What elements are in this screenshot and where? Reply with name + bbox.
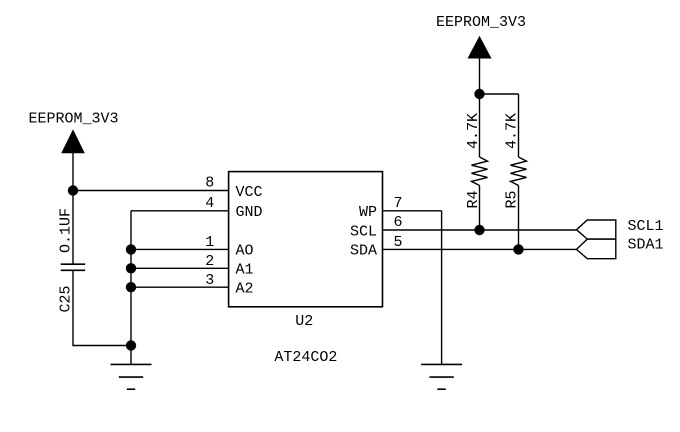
svg-text:4.7K: 4.7K (465, 113, 482, 149)
wire power stem (right) (479, 58, 481, 94)
svg-text:4: 4 (205, 195, 214, 212)
capacitor C25 bottom plate (61, 269, 85, 271)
junction dot pin 1 (126, 244, 136, 254)
wire pin 4 GND (131, 210, 229, 212)
svg-text:O.1UF: O.1UF (57, 208, 74, 253)
power symbol arrow (right) (468, 37, 490, 58)
port SDA1 (577, 239, 616, 259)
junction dot R4 to SCL (474, 225, 484, 235)
resistor R5 (511, 94, 527, 249)
svg-text:AT24CO2: AT24CO2 (274, 349, 337, 366)
svg-text:3: 3 (205, 272, 214, 289)
wire pin 6 SCL net (383, 229, 577, 231)
wire pin 8 VCC (73, 190, 229, 192)
junction dot capacitor to ground bus (126, 340, 136, 350)
wire pin 5 SDA net (383, 248, 577, 250)
wire pin 7 WP (383, 210, 442, 212)
svg-text:EEPROM_3V3: EEPROM_3V3 (436, 14, 526, 31)
wire pin 2 A1 (131, 267, 229, 269)
svg-text:5: 5 (394, 234, 403, 251)
svg-text:4.7K: 4.7K (504, 113, 521, 149)
svg-text:WP: WP (359, 204, 377, 221)
wire GND bus vertical (130, 211, 132, 365)
junction dot pin 2 (126, 263, 136, 273)
svg-text:1: 1 (205, 234, 214, 251)
svg-text:R4: R4 (465, 190, 482, 208)
capacitor C25 top plate (61, 263, 85, 265)
svg-text:6: 6 (394, 214, 403, 231)
svg-text:SDA1: SDA1 (628, 236, 664, 253)
svg-text:A1: A1 (236, 262, 254, 279)
junction dot pin 3 (126, 282, 136, 292)
svg-text:EEPROM_3V3: EEPROM_3V3 (29, 110, 119, 127)
wire pin 1 AO (131, 248, 229, 250)
junction dot pull-up rail (474, 89, 484, 99)
wire power stem (left) (72, 153, 74, 191)
svg-text:GND: GND (236, 204, 263, 221)
wire capacitor top lead (72, 191, 74, 265)
power symbol arrow (left) (62, 131, 84, 153)
ground symbol (left) (111, 364, 152, 389)
svg-text:SCL1: SCL1 (628, 218, 664, 235)
svg-text:VCC: VCC (236, 184, 263, 201)
svg-text:SCL: SCL (350, 223, 377, 240)
svg-text:8: 8 (205, 175, 214, 192)
wire capacitor bottom lead (73, 270, 131, 345)
wire pin 3 A2 (131, 286, 229, 288)
svg-text:C25: C25 (57, 285, 74, 312)
svg-text:U2: U2 (295, 313, 313, 330)
wire WP drop to ground (441, 211, 443, 365)
svg-text:2: 2 (205, 253, 214, 270)
junction dot R5 to SDA (513, 244, 523, 254)
wire rail to R5 (480, 93, 519, 95)
svg-text:SDA: SDA (350, 243, 377, 260)
svg-text:R5: R5 (504, 190, 521, 208)
svg-text:AO: AO (236, 243, 254, 260)
ground symbol (right) (421, 364, 462, 389)
resistor R4 (472, 94, 488, 230)
port SCL1 (577, 220, 616, 239)
junction dot at VCC rail (left) (68, 185, 78, 195)
svg-text:A2: A2 (236, 281, 254, 298)
svg-text:7: 7 (394, 195, 403, 212)
IC U2 box (AT24C02) (229, 172, 383, 307)
